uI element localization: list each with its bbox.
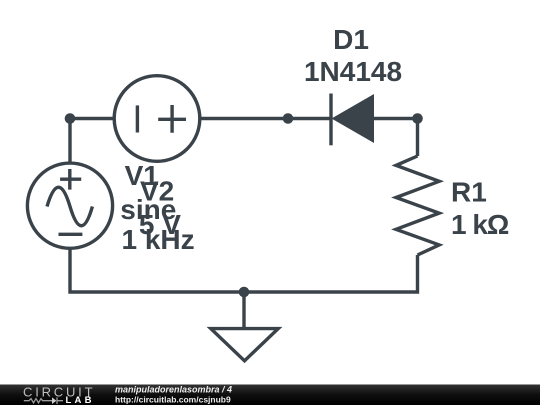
svg-text:D1: D1 xyxy=(333,24,369,55)
svg-text:R1: R1 xyxy=(451,177,487,208)
svg-text:http://circuitlab.com/csjnub9: http://circuitlab.com/csjnub9 xyxy=(115,395,231,405)
diode D1 cathode bar xyxy=(329,94,332,146)
ground node junction dot xyxy=(239,287,250,298)
CircuitLab logo squiggle: resistor zigzag xyxy=(24,399,52,403)
svg-text:manipuladorenlasombra / 4: manipuladorenlasombra / 4 xyxy=(115,385,232,395)
wire diode D1 anode to node B xyxy=(374,117,418,120)
wire bottom rail: V2 bottom to R1 bottom xyxy=(70,248,418,292)
CircuitLab logo squiggle: diode symbol xyxy=(52,397,56,404)
wire ground stub xyxy=(242,292,245,327)
wire V1 right terminal to diode D1 cathode xyxy=(199,117,331,120)
wire node A down to V2 top terminal xyxy=(68,119,71,165)
diode D1 triangle xyxy=(332,94,375,143)
svg-text:1N4148: 1N4148 xyxy=(304,56,402,87)
V1 plus sign xyxy=(158,105,186,133)
voltage source V2 circle xyxy=(27,163,112,248)
voltage source V1 circle xyxy=(114,76,200,162)
V1 minus bar xyxy=(136,105,139,132)
V2 plus sign xyxy=(60,169,81,190)
node A junction dot xyxy=(65,113,76,124)
svg-text:1 kHz: 1 kHz xyxy=(122,224,195,255)
V2 minus sign xyxy=(59,233,83,236)
ground symbol triangle xyxy=(211,329,278,361)
wire from node A to V1 left terminal xyxy=(70,117,115,120)
wire node B down to resistor R1 top xyxy=(416,119,419,157)
svg-text:1 kΩ: 1 kΩ xyxy=(451,209,509,240)
resistor R1 zigzag xyxy=(396,156,439,255)
V2 sine wave xyxy=(47,187,92,226)
diode left terminal dot xyxy=(283,113,294,124)
svg-text:LAB: LAB xyxy=(66,395,95,405)
node B junction dot xyxy=(412,113,423,124)
